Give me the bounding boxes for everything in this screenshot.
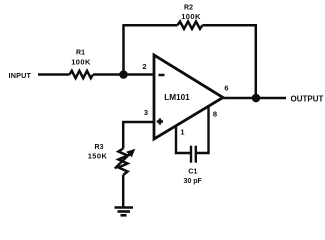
resistor R3 variable zigzag — [118, 149, 127, 176]
wire R1 to node A — [93, 73, 154, 76]
capacitor C1 left lead — [175, 152, 191, 155]
svg-text:3: 3 — [144, 108, 148, 117]
svg-text:R2: R2 — [184, 5, 193, 12]
pin 8 wire — [207, 106, 209, 155]
svg-text:INPUT: INPUT — [9, 71, 32, 80]
svg-text:OUTPUT: OUTPUT — [291, 94, 324, 103]
svg-text:1: 1 — [180, 128, 184, 137]
wire R3 to ground — [122, 175, 125, 207]
svg-text:8: 8 — [213, 109, 217, 118]
wire feedback drop right — [255, 25, 258, 98]
svg-text:R1: R1 — [76, 50, 85, 57]
svg-text:150K: 150K — [88, 151, 108, 160]
op-amp inverting input minus sign — [159, 74, 165, 77]
wire feedback top left segment — [122, 24, 177, 27]
wire feedback top right segment — [203, 24, 258, 27]
wire output — [223, 97, 286, 100]
pin 1 wire — [175, 126, 177, 155]
resistor R3 wiper arrow — [115, 153, 131, 169]
wire pin 3 corner down to R3 — [122, 121, 125, 149]
wire feedback riser left — [122, 25, 125, 74]
resistor R2 — [178, 22, 203, 29]
wire input lead — [38, 73, 70, 76]
svg-text:R3: R3 — [95, 144, 104, 151]
ground symbol — [115, 206, 134, 209]
svg-text:100K: 100K — [181, 12, 201, 21]
svg-text:100K: 100K — [71, 58, 91, 67]
svg-text:6: 6 — [224, 83, 228, 92]
svg-text:30 pF: 30 pF — [184, 178, 203, 185]
capacitor C1 plates — [190, 146, 192, 163]
node A junction dot — [119, 70, 128, 79]
node B junction dot — [252, 94, 261, 103]
op-amp non-inverting input plus sign — [157, 120, 163, 123]
svg-text:LM101: LM101 — [164, 93, 190, 102]
wire pin 3 horizontal — [123, 121, 155, 124]
resistor R1 — [70, 71, 94, 78]
capacitor C1 right lead — [196, 152, 210, 155]
svg-text:C1: C1 — [188, 167, 197, 176]
svg-text:2: 2 — [142, 62, 146, 71]
op-amp U1 triangle — [154, 55, 223, 139]
